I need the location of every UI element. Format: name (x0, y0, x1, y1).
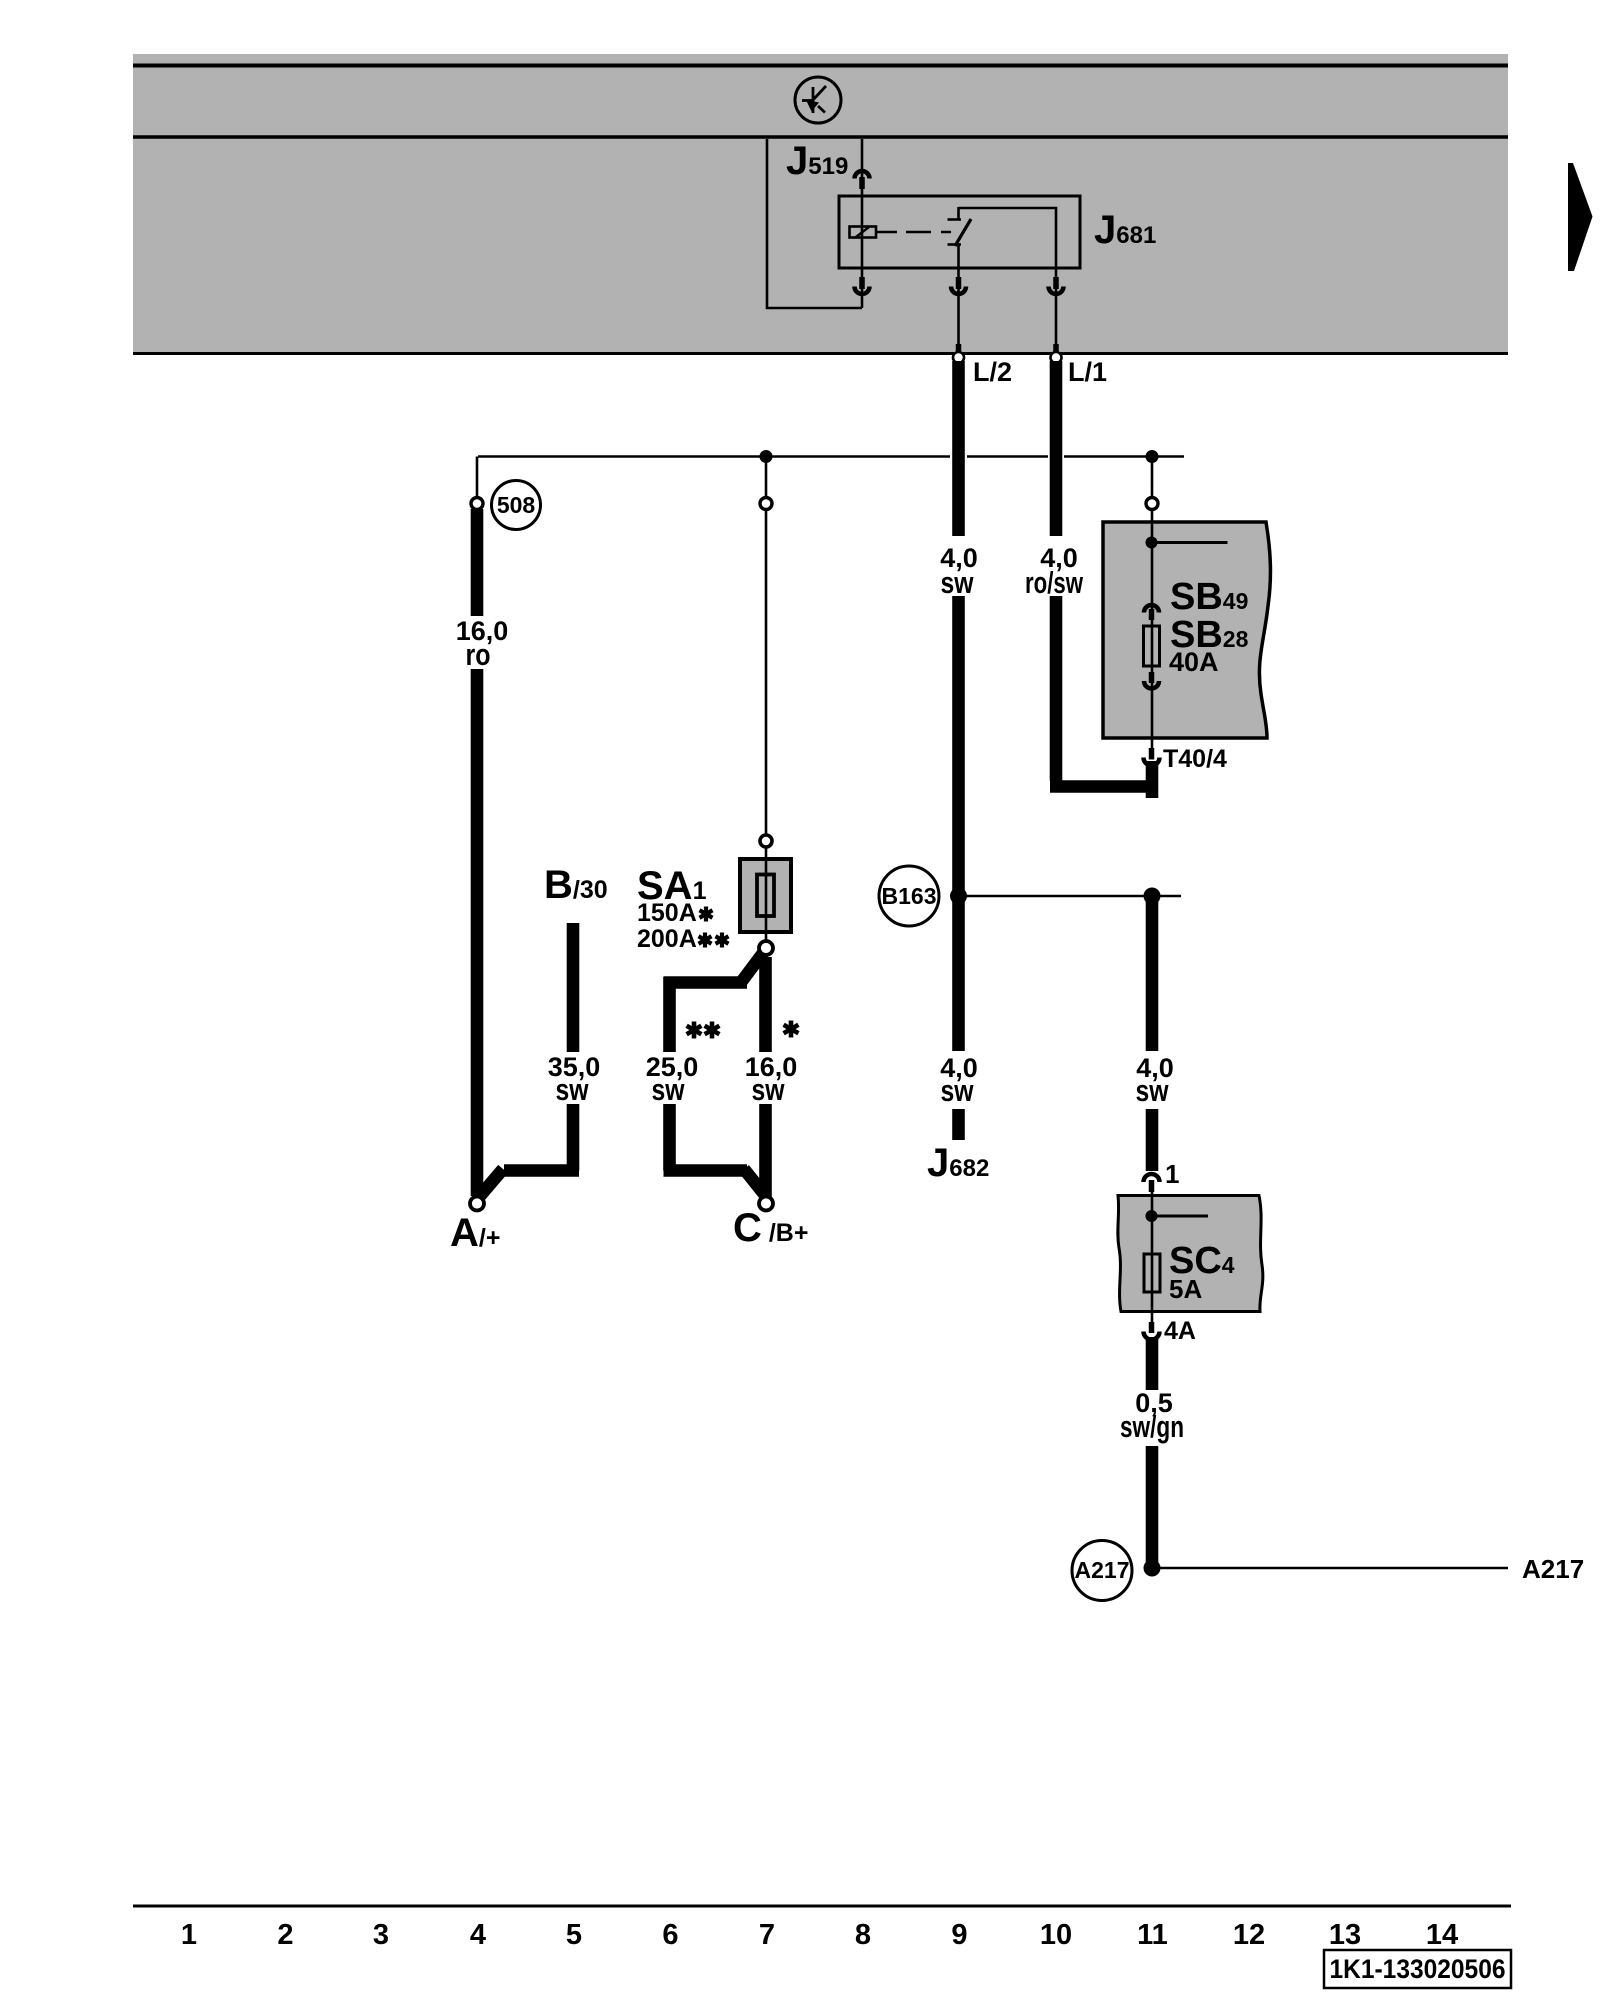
plug arrow up pin 1 (1144, 1174, 1160, 1192)
svg-text:8: 8 (855, 1919, 871, 1951)
svg-text:10: 10 (1040, 1919, 1072, 1951)
svg-text:12: 12 (1233, 1919, 1265, 1951)
relay pin lead right (1055, 268, 1058, 352)
svg-text:sw: sw (941, 1073, 975, 1108)
plug arrow down pin middle (951, 277, 966, 353)
dashed actuation line (877, 231, 951, 234)
svg-text:7: 7 (759, 1919, 775, 1951)
connector circle L/2 (953, 352, 964, 363)
gray band: instrument panel / J519 supply area (133, 54, 1508, 355)
relay inner wire to pin L/1 (959, 208, 1057, 268)
fuse SA1 box (740, 859, 791, 932)
thin wire into SA1 fuse (765, 509, 768, 941)
svg-text:sw: sw (941, 565, 975, 600)
horizontal distribution line y=456 (477, 457, 1184, 499)
horizontal line to column 11 (959, 895, 1182, 898)
connection circle 508 label (492, 481, 541, 530)
thin wire through SC (1151, 1192, 1154, 1323)
stub line inside SC (1152, 1215, 1209, 1218)
svg-text:A217: A217 (1522, 1554, 1584, 1584)
svg-text:3: 3 (373, 1919, 389, 1951)
asterisk after 150A (700, 907, 713, 922)
thin wire through SB (1151, 509, 1154, 749)
wire to A217 continuation (1159, 1567, 1508, 1570)
thick wire B 35,0 sw (480, 923, 579, 1196)
wire: relay feed vertical (861, 139, 864, 196)
relay switch contact (948, 207, 972, 268)
relay pin lead left (861, 268, 864, 308)
diagram number box (1324, 1950, 1511, 1988)
svg-text:1: 1 (181, 1919, 197, 1951)
relay coil (850, 196, 877, 268)
svg-text:A217: A217 (1075, 1557, 1130, 1583)
junction dot inside SC (1146, 1210, 1158, 1222)
thick wire branch 25,0 sw (left, **) (664, 953, 765, 1194)
thick wire column 11 below junction (1146, 900, 1159, 1171)
svg-text:5: 5 (566, 1919, 582, 1951)
thick wire branch 16,0 sw (right, *) (759, 957, 772, 1197)
connector circle above SA1 (760, 835, 772, 847)
plug arrow down 4A (1144, 1322, 1160, 1340)
svg-text:sw: sw (556, 1072, 590, 1107)
svg-text:sw: sw (652, 1072, 686, 1107)
svg-text:9: 9 (951, 1919, 967, 1951)
relay J681 box (839, 196, 1080, 268)
svg-text:4: 4 (470, 1919, 486, 1951)
svg-text:L/1: L/1 (1068, 357, 1107, 387)
connector circle below SA1 (759, 941, 773, 955)
connector circle L/1 (1051, 352, 1062, 363)
fuse panel SC box (1118, 1196, 1263, 1312)
svg-text:ro/sw: ro/sw (1025, 565, 1084, 600)
column numbers (181, 1919, 1458, 1951)
fuse SA1 element (757, 875, 774, 917)
svg-text:4A: 4A (1164, 1317, 1196, 1345)
svg-text:2: 2 (277, 1919, 293, 1951)
plug arrow down pin left (855, 277, 870, 294)
connector circle top of SA1 wire (760, 498, 772, 510)
fuse panel SB box (1103, 522, 1270, 738)
asterisks after 200A (699, 933, 712, 948)
plug arrow down pin right (1049, 277, 1064, 353)
direction arrow right margin (1568, 163, 1593, 271)
svg-text:6: 6 (662, 1919, 678, 1951)
svg-text:ro: ro (466, 637, 491, 672)
fuse element SC (1144, 1254, 1160, 1292)
bottom ruler line (133, 1905, 1511, 1908)
connection circle B163 (879, 866, 939, 926)
terminal 30 potential symbol (circle with arrow) (795, 77, 841, 123)
svg-text:11: 11 (1137, 1919, 1168, 1951)
fuse element SB (1144, 626, 1160, 666)
svg-text:200A: 200A (637, 925, 697, 953)
svg-text:150A: 150A (637, 899, 697, 927)
junction dot at column 11 (1146, 450, 1159, 463)
terminal circle A/+ (470, 1197, 484, 1211)
junction dot at column 7 (760, 450, 773, 463)
svg-text:sw: sw (752, 1072, 786, 1107)
plug arrow up inside SB (1144, 605, 1159, 620)
plug arrow down T40/4 (1144, 748, 1160, 766)
terminal circle C/B+ (759, 1197, 773, 1211)
svg-text:40A: 40A (1169, 647, 1219, 677)
svg-text:5A: 5A (1169, 1274, 1202, 1304)
wire: J519 internal loop (767, 139, 862, 308)
thick wire 0,5 sw/gn (1146, 1337, 1159, 1568)
svg-text:1K1-133020506: 1K1-133020506 (1330, 1954, 1506, 1984)
svg-text:B163: B163 (882, 883, 937, 909)
svg-text:13: 13 (1329, 1919, 1361, 1951)
svg-text:T40/4: T40/4 (1163, 745, 1227, 773)
svg-text:L/2: L/2 (973, 357, 1012, 387)
connection circle A217 (1072, 1541, 1132, 1601)
junction dot on column 11 (1144, 888, 1161, 905)
plug arrow up at relay pin (855, 171, 870, 189)
plug arrow down inside SB (1144, 672, 1159, 689)
big asterisk * on 16,0 branch (784, 1021, 799, 1038)
svg-text:1: 1 (1165, 1159, 1179, 1189)
svg-text:sw/gn: sw/gn (1120, 1409, 1184, 1444)
svg-text:508: 508 (497, 492, 536, 518)
junction dot inside SB (1146, 537, 1158, 549)
relay pin lead middle (957, 268, 960, 352)
junction dot A217 (1144, 1560, 1161, 1577)
stub line inside SB (1152, 541, 1228, 544)
connector circle top of SB wire (1146, 498, 1158, 510)
junction dot on L/2 wire (950, 888, 967, 905)
connector circle top of A wire (471, 498, 483, 510)
thick wire L/1 red/black 4,0 ro/sw (1050, 361, 1158, 798)
thick wire A 16,0 ro (471, 509, 484, 1196)
thick wire L/2 black 4,0 sw (952, 361, 965, 1140)
svg-text:14: 14 (1426, 1919, 1458, 1951)
big asterisks ** on 25,0 branch (687, 1022, 702, 1039)
svg-text:sw: sw (1136, 1073, 1170, 1108)
